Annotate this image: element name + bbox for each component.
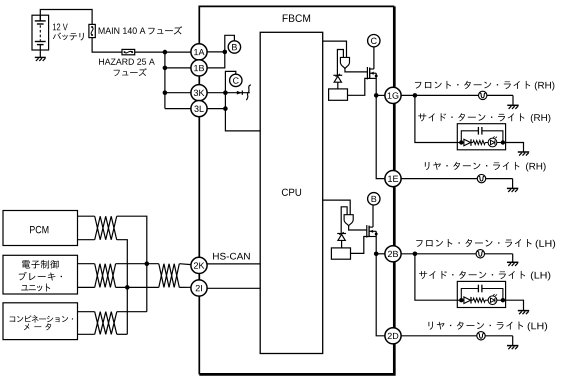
pin 3L	[191, 101, 207, 117]
lamp rear turn RH	[477, 174, 485, 182]
label CPU	[282, 189, 301, 196]
junction front LH	[413, 252, 418, 257]
wire driver output RH	[345, 69, 367, 72]
label rear turn light RH	[425, 162, 520, 170]
label brake unit	[19, 260, 62, 292]
label front turn light RH	[415, 81, 530, 89]
lamp front turn LH	[476, 250, 484, 258]
node B (off-page, drain)	[368, 193, 380, 205]
wire HAZARD fuse to pin 1A	[135, 51, 191, 53]
wire 2D to rear turn LH	[401, 335, 513, 337]
label side turn light RH	[418, 113, 524, 121]
wire meter CAN-H	[78, 311, 95, 313]
wire meter H join	[117, 311, 147, 313]
transistor Q1 (RH output FET)	[367, 67, 377, 79]
pin 1E	[385, 171, 401, 187]
wire CPU to RH driver	[323, 41, 347, 57]
zener diode LH	[337, 232, 346, 240]
lamp front turn RH	[479, 91, 487, 99]
wire to pin 3L	[165, 108, 191, 110]
wire rear RH to ground	[512, 179, 514, 188]
wire to pin 1G	[376, 94, 385, 96]
node C (off-page)	[230, 74, 242, 86]
wire brake L to bus	[116, 286, 159, 288]
wire box RH to source	[348, 78, 370, 95]
label 12V battery	[53, 24, 84, 41]
junction 1B feed	[163, 66, 168, 71]
wire pin 1A to node	[207, 51, 225, 53]
wire to pin 2I	[179, 286, 191, 288]
wire zener hook LH	[341, 207, 347, 233]
control box LH	[331, 248, 350, 259]
wire PCM H to bus	[117, 216, 147, 312]
ground side LH	[518, 311, 529, 315]
label PCM	[30, 226, 48, 233]
wire PCM CAN-L	[78, 239, 95, 241]
wire drain to node B2	[372, 205, 374, 227]
wire to pin 3K	[165, 92, 191, 94]
label rear turn light LH	[428, 321, 523, 329]
wire front RH to ground	[512, 95, 514, 105]
wire 1G to front turn RH	[401, 94, 513, 96]
module brake unit box	[3, 255, 78, 294]
wire to pin 2B	[376, 253, 385, 255]
wire drain to node C2	[373, 47, 375, 69]
junction node 3K	[223, 90, 228, 95]
wire to side turn RH	[415, 95, 457, 142]
ground rear LH	[507, 346, 518, 350]
ground front LH	[507, 262, 518, 266]
pin 2I	[191, 280, 207, 296]
label HS-CAN	[213, 253, 250, 260]
fuse MAIN 140A	[89, 24, 95, 37]
twisted pair to FBCM	[159, 264, 180, 288]
wire source down to 1G row	[375, 73, 377, 95]
wire 2I to CPU	[207, 287, 260, 289]
twisted pair PCM	[95, 216, 117, 240]
junction 1G row	[374, 93, 379, 98]
module FBCM box	[199, 6, 394, 374]
module combination meter box	[3, 303, 78, 340]
label MAIN 140A fuse	[99, 26, 183, 34]
label FBCM	[283, 14, 310, 22]
ground side RH	[518, 152, 529, 156]
label combination meter	[10, 315, 73, 330]
module CPU box	[260, 32, 323, 353]
junction 3K feed	[163, 90, 168, 95]
wire rear LH to ground	[512, 336, 514, 345]
wire brake CAN-H	[78, 263, 95, 265]
transistor Q2 (LH output FET)	[367, 225, 378, 237]
ground battery	[35, 57, 46, 61]
label front turn light LH	[416, 239, 531, 247]
module PCM box	[3, 211, 78, 246]
wire side RH to ground	[506, 143, 524, 152]
node C (off-page, drain)	[368, 35, 380, 47]
wire 2B to front turn LH	[401, 253, 513, 255]
wire brake CAN-L	[78, 286, 95, 288]
pin 1A	[191, 44, 207, 60]
wire node to connector C	[225, 71, 235, 92]
label side turn light LH	[419, 271, 525, 279]
wire MAIN fuse to HAZARD fuse	[92, 38, 122, 53]
ground front RH	[507, 105, 518, 109]
battery B1 (12V)	[32, 15, 49, 57]
wire zener to box LH	[341, 240, 343, 248]
wire node to 1B	[207, 52, 225, 68]
lamp rear turn LH	[477, 332, 485, 340]
wire meter CAN-L	[78, 333, 95, 335]
ground rear RH	[507, 188, 518, 192]
driver element RH	[340, 57, 349, 68]
junction node 1A/1B	[223, 50, 228, 55]
wire to pin 1B	[165, 67, 191, 69]
junction front RH	[413, 93, 418, 98]
side turn light unit RH	[457, 124, 505, 150]
wire source down to 2B row	[375, 231, 377, 254]
wire node down to CPU	[225, 93, 260, 131]
wire meter L join	[117, 333, 128, 335]
break squiggle	[246, 85, 251, 100]
wire side LH to ground	[506, 300, 524, 310]
wire 1E to rear turn RH	[401, 178, 512, 180]
pin 1G	[385, 87, 401, 103]
wire driver output LH	[349, 226, 367, 230]
twisted pair brake	[95, 264, 116, 288]
pin 2D	[385, 328, 401, 344]
wire pin 3L to node	[207, 108, 225, 110]
junction CAN-H	[145, 261, 150, 266]
wire node to connector B	[225, 35, 235, 52]
pin 2K	[191, 257, 207, 273]
label HAZARD 25A fuse	[99, 58, 155, 76]
wire pin 3K to continuation	[207, 92, 250, 94]
wire down to pin 1E	[376, 95, 385, 178]
node B (off-page)	[228, 41, 240, 53]
pin 1B	[191, 60, 207, 76]
wire down to pin 2D	[376, 254, 385, 336]
fuse HAZARD 25A	[122, 49, 135, 54]
wire PCM L to bus	[117, 240, 128, 335]
junction node 3L	[223, 106, 228, 111]
wire zener to box RH	[337, 82, 339, 89]
wire battery to MAIN fuse	[40, 10, 92, 25]
driver element LH	[344, 215, 353, 226]
wire 2K to CPU	[207, 263, 260, 265]
wire feed bus vertical	[164, 52, 166, 109]
wire CPU to LH driver	[323, 200, 351, 215]
wire to pin 2K	[179, 263, 191, 266]
wire to side turn LH	[415, 254, 457, 300]
twisted pair meter	[95, 312, 117, 335]
control box RH	[329, 89, 348, 100]
wire zener hook RH	[337, 50, 343, 75]
pin 2B	[385, 246, 401, 262]
junction feed	[163, 50, 168, 55]
arrow continuation	[237, 91, 243, 95]
pin 3K	[191, 85, 207, 101]
junction 2B row	[374, 252, 379, 257]
side turn light unit LH	[457, 281, 505, 307]
zener diode RH	[333, 74, 342, 82]
junction CAN-L	[125, 285, 130, 290]
wire front LH to ground	[512, 254, 514, 262]
wire box LH to source	[351, 237, 370, 254]
wire PCM CAN-H	[78, 215, 95, 217]
wire brake H to bus	[116, 263, 159, 265]
